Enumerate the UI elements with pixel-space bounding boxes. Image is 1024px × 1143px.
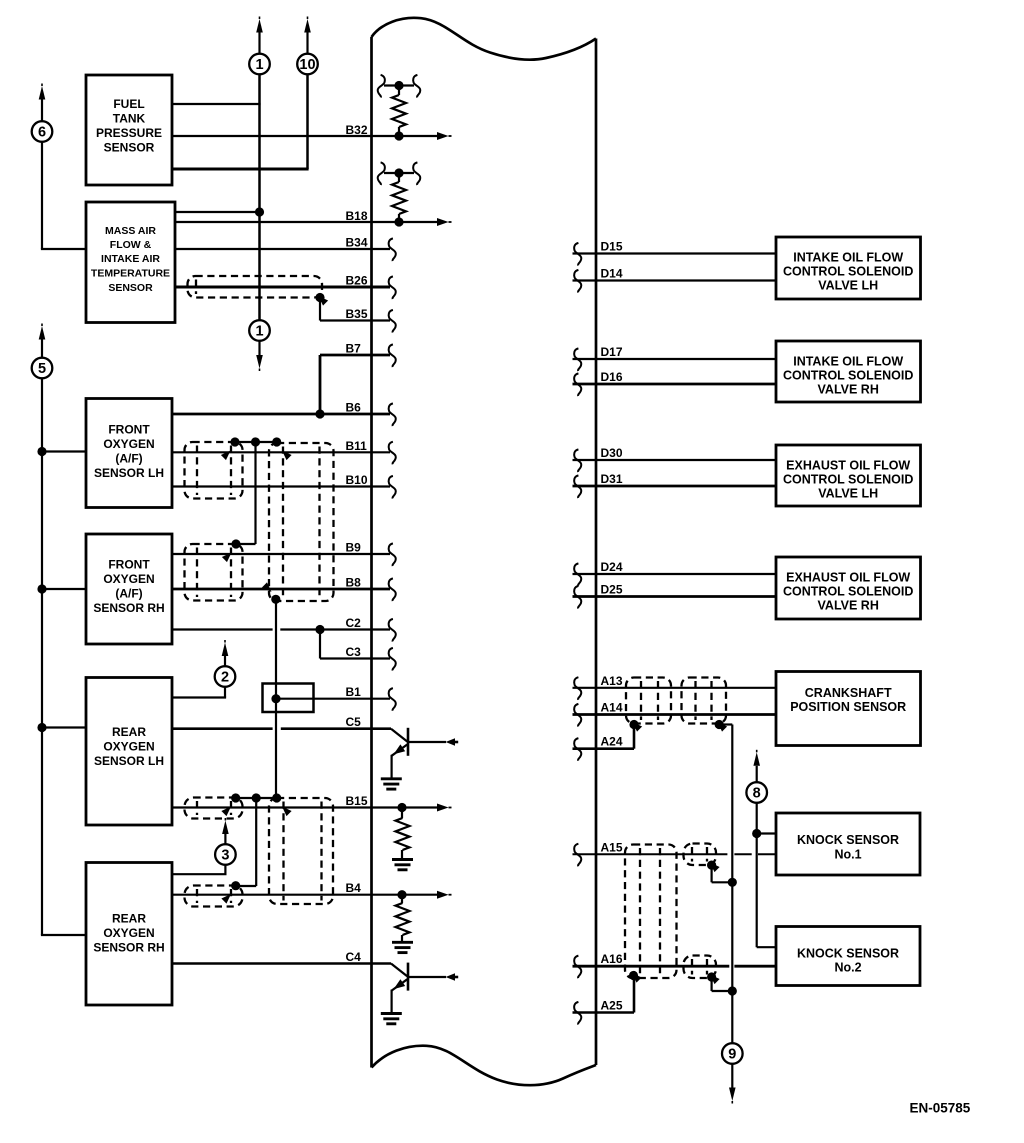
arrow B15 internal [437,804,452,812]
svg-text:A24: A24 [601,735,623,749]
node 8 arrow [753,750,760,782]
pin rail-right B18 [413,162,420,185]
junction drain bus knock2 [728,986,737,995]
svg-text:10: 10 [299,57,315,73]
svg-text:B9: B9 [346,541,362,555]
svg-text:C2: C2 [346,616,362,630]
svg-text:OXYGEN: OXYGEN [103,572,154,586]
pin C2 [389,619,396,642]
wire knock1 shield drain [712,865,733,882]
svg-text:PRESSURE: PRESSURE [96,126,162,140]
pin A14 [574,704,581,727]
node 6 arrow [39,84,46,122]
svg-text:B32: B32 [346,123,368,137]
svg-text:SENSOR: SENSOR [104,141,155,155]
ground B15 resistor [392,860,413,870]
svg-text:FUEL: FUEL [113,97,144,111]
pin A13 [574,677,581,700]
svg-text:D17: D17 [601,345,623,359]
svg-text:EXHAUST OIL FLOW: EXHAUST OIL FLOW [786,459,910,473]
shield drain rear-RH junction [221,881,240,904]
wire A16 [573,965,777,968]
crankshaft position sensor box [776,672,921,746]
label B9 [346,541,362,555]
node 2 circled label [215,666,236,687]
shield front-RH cable [185,544,243,601]
pin A15 [574,844,581,867]
svg-text:INTAKE OIL FLOW: INTAKE OIL FLOW [793,355,903,369]
resistor B4 load [396,895,410,942]
svg-text:CONTROL SOLENOID: CONTROL SOLENOID [783,369,913,383]
pin D17 [574,348,581,371]
pin rail-left B32 [378,75,385,98]
wire D16 [573,383,777,386]
wire D31 [573,485,777,488]
shield drain rear-LH junction [221,793,240,816]
label B6 [346,401,362,415]
svg-text:B34: B34 [346,236,368,250]
svg-text:VALVE RH: VALVE RH [818,383,879,397]
ground B4 resistor [392,942,413,952]
label B32 [346,123,368,137]
wire D30 [573,459,777,461]
wire D25 [573,595,777,598]
pin B8 [389,578,396,601]
label B34 [346,236,368,250]
svg-text:B6: B6 [346,401,362,415]
resistor B32 pull-up [392,86,406,137]
pin rail-left B18 [378,162,385,185]
node 5 circled label [32,358,53,379]
label A16 [601,952,623,966]
label A15 [601,840,623,854]
pin D14 [574,270,581,293]
wire B8 [172,588,390,591]
wire D24 [573,573,777,575]
pin D31 [574,475,581,498]
mass air flow sensor box [86,202,175,323]
junction B32 wire [394,131,403,140]
junction B6/B7 [315,409,324,418]
knock sensor No.2 box [776,927,920,986]
wire bus-1 vertical [258,74,261,320]
node 3 circled label [215,844,236,865]
shield B26 cable [188,276,323,298]
pin B34 [389,238,396,261]
svg-text:B11: B11 [346,439,368,453]
wire B9 [172,553,390,555]
label A25 [601,999,623,1013]
svg-text:B7: B7 [346,342,362,356]
svg-text:KNOCK SENSOR: KNOCK SENSOR [797,833,899,847]
label C5 [346,715,362,729]
svg-text:VALVE LH: VALVE LH [818,279,878,293]
svg-text:TEMPERATURE: TEMPERATURE [91,268,170,280]
svg-text:FRONT: FRONT [108,423,150,437]
label C3 [346,645,362,659]
svg-text:FRONT: FRONT [108,558,150,572]
label B4 [346,881,362,895]
wire B1 [276,698,390,700]
supply rail B18 [384,172,414,174]
shield drain front-RH junction [222,539,241,562]
pin D15 [574,243,581,266]
transistor C4 driver [391,963,458,1013]
supply rail B32 [384,84,414,86]
svg-text:SENSOR LH: SENSOR LH [94,754,164,768]
pin A16 [574,956,581,979]
rear oxygen sensor RH box [86,863,172,1006]
node 1 top arrow [256,17,263,54]
wire C3 [320,630,390,659]
wire node6 to MAF sensor [41,142,86,249]
label B15 [346,794,368,808]
svg-text:B18: B18 [346,209,368,223]
junction node5/front-LH [37,447,46,456]
transistor C5 driver [391,728,458,778]
pin D25 [574,586,581,609]
junction B18 wire [394,217,403,226]
svg-text:TANK: TANK [113,112,146,126]
junction node5/front-RH [37,584,46,593]
svg-text:SENSOR RH: SENSOR RH [93,941,164,955]
wire B7 [320,355,390,414]
wire A15 [573,853,777,855]
shield rear trunk cable [269,798,333,904]
rear oxygen sensor LH box [86,678,172,826]
pin D30 [574,449,581,472]
fuel tank pressure sensor box [86,75,172,185]
junction node8/knock1 [752,829,761,838]
wire rear-RH to node3 [172,865,227,874]
junction front drain mid [251,437,260,446]
label B8 [346,576,362,590]
wire C5 [172,727,391,730]
svg-text:OXYGEN: OXYGEN [103,926,154,940]
junction drain bus knock1 [728,878,737,887]
label D31 [601,472,623,486]
wire shield drain bus to node9 [719,725,732,1044]
svg-text:REAR: REAR [112,725,146,739]
svg-text:FLOW &: FLOW & [110,239,152,251]
pin B9 [389,543,396,566]
wire B26 [175,286,390,289]
svg-text:INTAKE AIR: INTAKE AIR [101,253,160,265]
pin D24 [574,563,581,586]
ECM block right edge [595,39,598,1066]
wire fuel-sensor to bus-10 [172,168,309,171]
node 1 bottom circled label [249,320,270,341]
pin C3 [389,648,396,671]
wire rear-LH to node2 [172,687,226,698]
wire B18 [175,221,438,223]
svg-text:D15: D15 [601,240,623,254]
wire D14 [573,279,777,281]
wire B4 [172,894,438,896]
label D25 [601,583,623,597]
svg-text:(A/F): (A/F) [115,452,142,466]
label B35 [346,307,368,321]
svg-text:8: 8 [753,786,761,802]
shield crank cable section 1 [626,678,671,724]
svg-text:C5: C5 [346,715,362,729]
shield rear-LH cable [185,798,243,819]
svg-text:CONTROL SOLENOID: CONTROL SOLENOID [783,585,913,599]
wire rear shield drain bus [236,798,277,886]
wire bus-10 vertical [306,74,309,169]
ECM block top torn edge [372,18,597,60]
svg-text:D16: D16 [601,370,623,384]
wire D15 [573,252,777,254]
svg-text:EXHAUST OIL FLOW: EXHAUST OIL FLOW [786,571,910,585]
svg-text:3: 3 [221,848,229,864]
wire front shield drain bus [235,442,277,544]
node 9 circled label [722,1043,743,1064]
svg-text:MASS AIR: MASS AIR [105,225,156,237]
svg-text:A16: A16 [601,952,623,966]
wire B35 [320,319,390,321]
svg-text:SENSOR: SENSOR [108,282,153,294]
wire knock2 shield drain [712,977,733,991]
svg-text:REAR: REAR [112,912,146,926]
junction knock2 shield drain [707,972,720,984]
pin D16 [574,373,581,396]
shield drain front-LH junction [221,437,240,460]
wire A14 [573,713,777,716]
label A13 [601,674,623,688]
label B18 [346,209,368,223]
wire D17 [573,358,777,360]
shield front trunk cable [269,443,334,601]
svg-text:VALVE LH: VALVE LH [818,487,878,501]
wire A13 [573,687,777,689]
intake oil flow control solenoid valve LH box [776,237,921,299]
label A24 [601,735,623,749]
shield rear-RH cable [185,886,243,907]
svg-text:1: 1 [255,57,263,73]
junction B4 resistor [397,890,406,899]
wire B15 [172,806,438,808]
label B7 [346,342,362,356]
pin B10 [389,476,396,499]
shield knock1 cable [684,844,717,866]
svg-text:CRANKSHAFT: CRANKSHAFT [805,686,892,700]
label C4 [346,950,362,964]
svg-text:1: 1 [255,324,263,340]
wire MAF to bus-1 [175,211,260,213]
intake oil flow control solenoid valve RH box [776,341,921,402]
node 1 bottom arrow [256,341,263,371]
joint connector B1 [263,684,314,713]
shield drain B26 to B35 [315,293,328,321]
label D24 [601,560,623,574]
svg-text:B35: B35 [346,307,368,321]
resistor B18 pull-up [392,173,406,222]
wire node8 to knock sensors [757,803,776,947]
knock sensor No.1 box [776,813,920,875]
wire front-LH to node5 [42,450,86,452]
front oxygen sensor LH box [86,399,172,508]
wire C4 [172,962,391,965]
node 10 arrow [304,17,311,54]
label D16 [601,370,623,384]
svg-text:INTAKE OIL FLOW: INTAKE OIL FLOW [793,251,903,265]
svg-text:D30: D30 [601,446,623,460]
shield knock trunk cable [625,845,677,979]
svg-text:EN-05785: EN-05785 [910,1101,971,1116]
node 10 circled label [297,54,318,75]
svg-text:B1: B1 [346,685,362,699]
pin rail-right B32 [413,75,420,98]
pin B11 [389,442,396,465]
label B26 [346,274,368,288]
svg-text:2: 2 [221,670,229,686]
svg-text:D25: D25 [601,583,623,597]
svg-text:No.1: No.1 [834,848,861,862]
junction B32 rail [394,81,403,90]
label B11 [346,439,368,453]
pin B35 [389,310,396,333]
svg-text:B15: B15 [346,794,368,808]
arrow B4 internal [437,891,452,899]
svg-text:B26: B26 [346,274,368,288]
svg-text:B8: B8 [346,576,362,590]
label D14 [601,267,623,281]
node 3 arrow [222,818,229,844]
figure number EN-05785 [910,1101,971,1116]
junction C2/C3 [315,625,324,634]
svg-text:OXYGEN: OXYGEN [103,437,154,451]
pin A24 [574,738,581,761]
svg-text:D31: D31 [601,472,623,486]
svg-text:B4: B4 [346,881,362,895]
exhaust oil flow control solenoid valve LH box [776,445,921,506]
svg-text:CONTROL SOLENOID: CONTROL SOLENOID [783,265,913,279]
svg-text:CONTROL SOLENOID: CONTROL SOLENOID [783,473,913,487]
wire B11 [172,451,390,453]
label D15 [601,240,623,254]
wire shield drain B1 to rear bus [275,699,277,798]
wire B34 [175,248,390,250]
junction B15 resistor [397,803,406,812]
svg-text:B10: B10 [346,473,368,487]
junction B18 rail [394,168,403,177]
wire B32 [172,135,438,137]
ECM block bottom torn edge [372,1046,597,1085]
wire trunk shield drain to joint connector [275,599,277,698]
front oxygen sensor RH box [86,534,172,644]
junction A25 shield [629,970,642,982]
wire B6 [172,413,390,416]
wire front-RH to node5 [42,588,86,590]
svg-text:A13: A13 [601,674,623,688]
svg-text:No.2: No.2 [834,961,861,975]
pin B26 [389,276,396,299]
resistor B15 load [396,808,410,859]
pin B7 [389,344,396,367]
label B1 [346,685,362,699]
junction rear drain trunk [272,793,292,816]
svg-text:(A/F): (A/F) [115,587,142,601]
pin A25 [574,1002,581,1025]
node 8 circled label [746,782,767,803]
node 9 arrow [729,1064,736,1104]
wire knock1 to node8 [757,832,776,834]
shield knock2 cable [684,956,717,979]
wire B10 [172,485,390,487]
ground C4 emitter [381,1014,402,1024]
svg-text:C4: C4 [346,950,362,964]
svg-text:POSITION SENSOR: POSITION SENSOR [790,700,906,714]
node 5 arrow [39,324,46,358]
wire A24 [573,725,635,749]
exhaust oil flow control solenoid valve RH box [776,557,921,619]
junction knock1 shield drain [707,860,720,872]
wire rear-LH to node5 [42,726,86,728]
svg-text:D24: D24 [601,560,623,574]
svg-text:SENSOR LH: SENSOR LH [94,466,164,480]
label A14 [601,701,623,715]
svg-text:SENSOR RH: SENSOR RH [93,601,164,615]
svg-text:5: 5 [38,361,46,377]
ECM block left edge [370,37,373,1068]
svg-text:9: 9 [728,1047,736,1063]
node 1 top circled label [249,54,270,75]
shield front-LH cable [185,442,243,499]
wire fuel-sensor to bus-1 [172,103,261,105]
junction front drain trunk [272,437,292,460]
arrow B32 internal [437,132,452,140]
wire C2 [172,628,390,630]
svg-text:C3: C3 [346,645,362,659]
svg-text:OXYGEN: OXYGEN [103,740,154,754]
wire node5 vertical bus [41,378,86,935]
junction crank shield 2 drain [715,719,728,731]
node 6 circled label [32,121,53,142]
svg-text:D14: D14 [601,267,623,281]
node 2 arrow [222,640,229,666]
svg-text:6: 6 [38,125,46,141]
svg-text:VALVE RH: VALVE RH [818,599,879,613]
svg-text:A14: A14 [601,701,623,715]
label D17 [601,345,623,359]
junction bus-1/MAF [255,207,264,216]
junction node5/rear-LH [37,723,46,732]
junction A24 shield [629,719,642,731]
svg-text:A25: A25 [601,999,623,1013]
svg-text:KNOCK SENSOR: KNOCK SENSOR [797,947,899,961]
junction B1 shield drain [271,694,280,703]
pin B1 [389,688,396,711]
label B10 [346,473,368,487]
pin B6 [389,403,396,426]
ground C5 emitter [381,779,402,789]
shield crank cable section 2 [682,678,727,724]
junction rear drain mid [252,793,261,802]
arrow B18 internal [437,218,452,226]
wire A25 [573,976,635,1013]
label C2 [346,616,362,630]
label D30 [601,446,623,460]
shield drain trunk bottom junction [262,582,281,604]
svg-text:A15: A15 [601,840,623,854]
